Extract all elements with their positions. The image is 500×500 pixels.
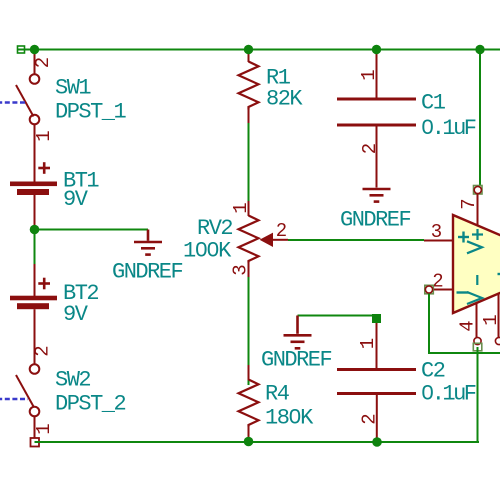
op-amp - input mark	[457, 291, 469, 293]
switch SW1	[16, 50, 39, 182]
SW1 mechanical link (dashed)	[0, 101, 25, 103]
svg-text:C1: C1	[421, 91, 446, 116]
wire (pin 4 to bottom rail)	[477, 347, 479, 442]
svg-text:GNDREF: GNDREF	[261, 348, 332, 373]
op-amp pin 4	[476, 303, 478, 338]
svg-text:180K: 180K	[265, 406, 314, 431]
svg-text:1: 1	[480, 314, 500, 325]
wire (R1 to RV2)	[248, 123, 250, 201]
pin 4 end (circle + square)	[474, 337, 481, 344]
teal sliver at right edge	[498, 273, 500, 275]
op-amp U1 triangle	[453, 215, 500, 313]
svg-text:2: 2	[32, 57, 54, 68]
op-amp pin 2	[433, 289, 453, 291]
SW2 mechanical link (dashed)	[0, 398, 28, 400]
svg-text:DPST_2: DPST_2	[55, 392, 126, 417]
switch SW2	[16, 364, 39, 438]
wire (op-amp V+ drop)	[479, 54, 481, 186]
op-amp + input mark	[458, 232, 469, 243]
junction (top rail / R1)	[244, 45, 253, 54]
BT2 plus mark	[38, 278, 50, 290]
wire (pin 2 feedback run)	[429, 294, 500, 354]
svg-text:7: 7	[458, 198, 480, 209]
svg-text:SW2: SW2	[55, 368, 90, 393]
SW2 pin end square	[31, 438, 40, 447]
wire (C2 top to GNDREF)	[298, 315, 374, 317]
op-amp pin 7	[477, 194, 479, 227]
svg-text:1: 1	[230, 202, 252, 213]
zero glyph dot covers	[199, 124, 429, 420]
ground GNDREF (under C1)	[363, 189, 391, 202]
wire end square (dangling end, top-left)	[18, 46, 25, 53]
svg-text:1: 1	[357, 338, 379, 349]
svg-text:2: 2	[358, 413, 380, 424]
BT2 bottom pin	[34, 309, 36, 364]
svg-text:3: 3	[431, 221, 442, 243]
junction (top rail / op-amp V+)	[475, 45, 484, 54]
wire (midpoint to GNDREF)	[35, 229, 149, 231]
op-amp pin 3	[424, 240, 453, 242]
wire (RV2 to R4)	[248, 277, 250, 385]
capacitor C2	[376, 322, 378, 368]
svg-text:1: 1	[358, 69, 380, 80]
svg-text:82K: 82K	[266, 87, 303, 112]
junction (bottom rail / R4)	[244, 437, 254, 447]
svg-text:1: 1	[33, 130, 55, 141]
svg-text:C2: C2	[421, 359, 445, 384]
pin 7 end (dangling square + circle)	[474, 186, 483, 195]
svg-text:9V: 9V	[63, 187, 89, 212]
svg-text:3: 3	[229, 264, 251, 275]
pin 1 end circle	[495, 337, 500, 344]
resistor R4	[248, 365, 250, 380]
ground GNDREF (near C2)	[284, 316, 312, 349]
resistor R1	[248, 54, 250, 62]
op-amp V- text (rotated)	[467, 275, 482, 304]
junction (top rail / SW1)	[30, 45, 39, 54]
wire (RV2 wiper to op-amp pin 3)	[288, 239, 424, 241]
svg-text:9V: 9V	[63, 302, 89, 327]
svg-text:R4: R4	[265, 382, 290, 407]
junction (battery midpoint)	[30, 225, 40, 235]
junction (bottom rail / C2)	[372, 437, 382, 447]
svg-text:2: 2	[32, 345, 54, 356]
pin 2 end (dangling square + circle)	[425, 285, 434, 294]
capacitor C1	[376, 54, 378, 98]
svg-text:RV2: RV2	[197, 216, 232, 241]
svg-text:2: 2	[359, 143, 381, 154]
svg-text:SW1: SW1	[55, 76, 91, 101]
wire top rail	[18, 49, 500, 51]
potentiometer RV2	[248, 201, 250, 216]
wire bottom rail	[35, 441, 480, 443]
ground GNDREF (battery mid)	[134, 230, 162, 255]
battery BT2	[34, 264, 36, 296]
op-amp V+ text (rotated)	[467, 229, 483, 253]
junction (top rail / C1)	[372, 45, 381, 54]
battery BT1	[10, 182, 57, 196]
svg-text:4: 4	[456, 320, 478, 331]
BT1 plus mark	[38, 162, 50, 174]
svg-text:DPST_1: DPST_1	[55, 100, 127, 125]
junction square (C2 top)	[372, 314, 381, 323]
svg-text:1: 1	[33, 423, 55, 434]
op-amp pin 1	[498, 294, 500, 338]
svg-text:2: 2	[276, 220, 287, 242]
RV2 wiper arrow	[260, 233, 274, 247]
svg-text:100K: 100K	[183, 239, 232, 264]
BT1 bottom pin	[34, 195, 36, 225]
svg-text:GNDREF: GNDREF	[112, 260, 183, 285]
svg-text:GNDREF: GNDREF	[340, 208, 411, 233]
wire (midpoint down to BT2)	[34, 234, 36, 264]
